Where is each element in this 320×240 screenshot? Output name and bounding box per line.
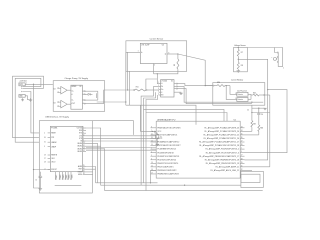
wire R11 node up to supply row: [146, 79, 157, 90]
U1 left pin 10: [151, 145, 157, 147]
U1 right pin 2: [240, 148, 244, 150]
charge pump boundary box: [53, 81, 104, 112]
wire U6 row1 down right side: [86, 128, 241, 185]
U2 pin 2 IN-: [159, 85, 161, 87]
op-amp U3B: [61, 100, 67, 108]
current window boundary box: [213, 83, 265, 106]
U6 pin 30 DTR: [48, 137, 51, 139]
U1 right pin 19: [240, 162, 244, 164]
U2 pin 5 EN: [159, 94, 161, 96]
svg-text:R18: R18: [260, 128, 263, 130]
wire mesh row to MCU region: [126, 105, 196, 125]
U1 right pin 24: [240, 130, 244, 132]
wire chain node to comparator bus: [251, 112, 252, 113]
U6 pin 13 CBUS2: [83, 148, 86, 150]
input resistor R11: [134, 90, 135, 91]
U6 bottom pins: [55, 172, 57, 179]
U1 left pin 15: [151, 166, 157, 168]
U6 pin 17 3V3OUT: [48, 169, 51, 171]
svg-text:PB7/XTAL2/TOSC2/PCINT7: PB7/XTAL2/TOSC2/PCINT7: [157, 144, 180, 147]
svg-text:OSCI: OSCI: [51, 158, 55, 160]
U1 right pin 25: [240, 134, 244, 136]
U6 pin 26 TEST: [83, 168, 86, 170]
wire U6 CBUS1 join vertical: [86, 145, 101, 147]
U6 pin 11 CTS: [83, 135, 86, 137]
svg-text:CBUS0: CBUS0: [77, 143, 82, 145]
wire to detector A input: [230, 86, 237, 95]
wire USB to MCU extra row A: [86, 147, 156, 149]
svg-text:RL_ATmega328P_PC4/ADC4/SDA/PCI: RL_ATmega328P_PC4/ADC4/SDA/PCINT12_27: [199, 141, 239, 144]
svg-text:GND5: GND5: [68, 174, 70, 178]
svg-text:RL_ATmega328P_PC1/ADC1/PCINT9_: RL_ATmega328P_PC1/ADC1/PCINT9_24: [204, 130, 239, 133]
svg-text:ATMEGA328P-PU: ATMEGA328P-PU: [157, 118, 175, 121]
wire U6 CBUS0 to bottom bus B1: [86, 144, 98, 183]
wire U6 RXD to MCU TXD: [86, 137, 156, 139]
U1 left pin 1: [151, 148, 157, 150]
wire R17 to MCU pin: [245, 130, 252, 132]
U2 pin 4 V-: [159, 91, 161, 93]
U6 pin 29 RESETB: [48, 154, 51, 156]
U1 left pin 7: [151, 130, 157, 132]
svg-text:10: 10: [247, 109, 249, 111]
svg-text:GND6: GND6: [71, 174, 73, 178]
svg-text:GND: GND: [20, 96, 23, 98]
wire output rail to R11: [104, 90, 135, 104]
U1 left pin 20: [151, 137, 157, 139]
svg-text:R9: R9: [174, 64, 176, 66]
wire U6 CBUS2 to bottom bus B3: [86, 149, 263, 191]
wire MCU left pin row to bus B1: [151, 170, 157, 182]
svg-text:RL_ATmega328P_PC3/ADC3/PCINT11: RL_ATmega328P_PC3/ADC3/PCINT11_26: [204, 137, 240, 140]
svg-text:R15: R15: [253, 92, 256, 94]
svg-text:C1+: C1+: [71, 91, 74, 93]
svg-text:GND4: GND4: [66, 174, 68, 178]
voltage sensor boundary box: [234, 48, 248, 72]
svg-text:CBUS1: CBUS1: [77, 146, 82, 148]
U1 right pin 21: [240, 166, 244, 168]
resistor R8 divider bottom: [237, 56, 239, 62]
svg-text:Current Window: Current Window: [231, 79, 244, 82]
U6 pin 25 AGND: [83, 166, 86, 168]
svg-text:USBDM: USBDM: [51, 142, 57, 144]
U1 left pin 12: [151, 141, 157, 143]
svg-text:LTC6101: LTC6101: [161, 80, 167, 82]
wire mesh corner row upper: [144, 109, 225, 121]
svg-text:RL_ATmega328P_PB4/MISO/PCINT4_: RL_ATmega328P_PB4/MISO/PCINT4_18: [205, 158, 239, 161]
RC chain R17: [251, 105, 253, 120]
svg-text:PD2/INT0/PCINT18: PD2/INT0/PCINT18: [157, 152, 173, 154]
crystal load cap cluster: [139, 105, 141, 131]
U1 left pin 4: [151, 152, 157, 154]
wire op-amp input row: [97, 101, 126, 103]
svg-text:RTS: RTS: [79, 133, 82, 135]
U6 pin 1 TXD: [83, 127, 86, 129]
battery return loop wire: [278, 48, 283, 67]
connector pin 1 wire to charge pump: [25, 83, 53, 85]
svg-text:+: +: [271, 57, 272, 59]
input pin pad: [213, 85, 214, 86]
svg-text:V+: V+: [71, 94, 73, 96]
U1 right pin 17: [240, 155, 244, 157]
svg-text:PD4/T0/XCK/PCINT20: PD4/T0/XCK/PCINT20: [157, 159, 176, 161]
amplifier U2 body: [161, 80, 174, 97]
diode D1: [85, 93, 88, 95]
svg-text:IN+: IN+: [161, 89, 163, 91]
svg-text:V+: V+: [161, 83, 163, 85]
wire junction down to system ground: [34, 84, 41, 188]
U6 pin 23 CBUS0: [83, 143, 86, 145]
U1 right pin 22: [240, 169, 244, 171]
U2 pin 1 V+: [159, 83, 161, 85]
svg-text:PD3/INT1/OC2B/PCINT19: PD3/INT1/OC2B/PCINT19: [157, 156, 179, 158]
svg-text:GND2: GND2: [60, 174, 62, 178]
svg-text:PD6/AIN0/OC0A/PCINT22: PD6/AIN0/OC0A/PCINT22: [157, 141, 179, 144]
charge pump IC U4: [71, 85, 83, 109]
flying capacitor C1 loop: [85, 90, 98, 92]
svg-text:Charge Pump, 5V Supply: Charge Pump, 5V Supply: [65, 77, 89, 80]
wire U3A output to U4: [67, 89, 71, 91]
connector ground block: [19, 95, 25, 98]
svg-text:LM2662: LM2662: [71, 86, 76, 88]
svg-text:RL_ATmega328P_ADC6_GND_22: RL_ATmega328P_ADC6_GND_22: [211, 169, 240, 172]
node after R16: [226, 85, 227, 86]
wire U3B output to U4: [67, 103, 71, 105]
U6 pin 6 RI: [83, 140, 86, 142]
U6 pin 3 RTS: [83, 132, 86, 134]
U1 left pin 16: [151, 169, 157, 171]
resistor R16: [217, 85, 225, 87]
U6 pin 5 RXD: [83, 130, 86, 132]
svg-text:CTS: CTS: [79, 135, 82, 137]
svg-text:RESETB: RESETB: [51, 155, 57, 157]
wire diagonal sensor output to current window: [178, 54, 213, 86]
svg-text:R11: R11: [136, 86, 139, 88]
svg-text:U3: U3: [54, 88, 56, 90]
svg-text:RL_ATmega328P_PC5/ADC5/SCL/PCI: RL_ATmega328P_PC5/ADC5/SCL/PCINT13_28: [199, 144, 239, 147]
wire node to far-right bus: [267, 89, 268, 90]
zero phase detector B: [237, 98, 248, 102]
detector output wires: [248, 93, 251, 95]
svg-text:RL_ATmega328P_AREF_21: RL_ATmega328P_AREF_21: [216, 165, 240, 168]
U1 left pin 17: [151, 173, 157, 175]
USB bridge IC U6: [50, 126, 82, 171]
U1 right pin 27: [240, 141, 244, 143]
resistor R18: [258, 115, 260, 125]
U6 pin 27 OSCI: [48, 158, 51, 160]
resistor R7 divider top: [238, 47, 239, 48]
divider tap node: [238, 59, 239, 60]
wire mesh corner row lower: [146, 113, 227, 122]
wire bottom-right loop inner: [241, 174, 260, 182]
pin 3 of U5: [167, 53, 178, 55]
U1 right pin 23: [240, 127, 244, 129]
wire U5 pin1 down long run: [126, 51, 141, 53]
resistor R15: [253, 94, 259, 96]
U1 left pin 11: [151, 134, 157, 136]
wire tap to ADC (down right side): [238, 59, 267, 160]
wire pin2 node to U2 supply: [153, 64, 155, 74]
svg-text:CBUS2: CBUS2: [77, 148, 82, 150]
svg-text:PD5/T1/OC0B/PCINT21: PD5/T1/OC0B/PCINT21: [157, 135, 177, 137]
svg-text:R8: R8: [241, 65, 243, 67]
svg-text:C4: C4: [36, 179, 38, 181]
svg-text:U3: U3: [54, 102, 56, 104]
current transducer U5 body: [140, 43, 167, 63]
svg-text:CBUS3: CBUS3: [77, 151, 82, 153]
U1 right pin 26: [240, 137, 244, 139]
svg-text:Y1: Y1: [160, 136, 162, 138]
svg-text:GND1: GND1: [56, 174, 58, 178]
wire 3V3OUT to battery junction rail: [33, 169, 34, 170]
svg-text:DC12: DC12: [20, 84, 24, 86]
svg-text:U5: U5: [162, 45, 164, 47]
svg-text:3V3OUT: 3V3OUT: [51, 169, 57, 171]
svg-text:U4: U4: [80, 86, 82, 88]
svg-text:FT232RL: FT232RL: [51, 127, 57, 129]
svg-text:R7: R7: [241, 52, 243, 54]
U2 ground: [174, 91, 181, 94]
U2 right pin 3 wire to chain rail: [174, 88, 177, 90]
svg-text:DTR: DTR: [79, 138, 82, 140]
wire U2 pin2 route down to bus B2: [141, 86, 153, 185]
svg-text:C6: C6: [261, 114, 263, 116]
U6 pin 2 DTR: [83, 137, 86, 139]
svg-text:R17: R17: [253, 123, 256, 125]
connector pin 4 wire to USB header pin: [23, 92, 40, 133]
U6 pin 9 USBDP: [48, 146, 51, 148]
svg-text:TEST: TEST: [78, 169, 82, 171]
op-amp U3A: [61, 87, 67, 95]
wire U2 pin4 route down to bus B1: [144, 92, 156, 183]
ground symbol for connector: [25, 96, 29, 100]
U6 pin 15 OSCI2: [83, 171, 86, 173]
capacitor C6: [258, 108, 259, 109]
svg-text:VOUT: VOUT: [71, 103, 75, 105]
svg-text:USBDP: USBDP: [51, 146, 56, 148]
U1 left pin 6: [151, 159, 157, 161]
wire comparator output down right: [269, 95, 271, 167]
wire box top extension to MCU net: [92, 121, 133, 135]
svg-text:USB Interface, 5V Supply: USB Interface, 5V Supply: [45, 116, 70, 119]
connector J1 body: [19, 83, 25, 86]
wire lower rows to bus: [86, 167, 96, 183]
svg-text:RL_ATmega328P_PC2/ADC2/PCINT10: RL_ATmega328P_PC2/ADC2/PCINT10_25: [203, 134, 239, 137]
wire to detector B input: [226, 86, 237, 100]
left ground wire of U6 with capacitor C4: [39, 172, 41, 176]
svg-text:PB2/SS/OC1B/PCINT2: PB2/SS/OC1B/PCINT2: [157, 170, 176, 172]
svg-text:RL_ATmega328P_PC0/ADC0/PCINT8_: RL_ATmega328P_PC0/ADC0/PCINT8_23: [204, 126, 239, 129]
svg-text:EN: EN: [161, 95, 163, 97]
U2 output wire to current window input: [174, 83, 177, 85]
svg-text:TXD: TXD: [79, 128, 82, 130]
U6 pin 16 GND4: [83, 174, 86, 176]
U6 pin 22 CBUS1: [83, 145, 86, 147]
ground stub inside window box: [252, 107, 264, 109]
svg-text:2: 2: [154, 65, 155, 67]
svg-text:VCC: VCC: [157, 131, 162, 133]
U1 left pin 14: [151, 162, 157, 164]
wire USB to MCU extra row B: [86, 149, 156, 151]
second ground mark: [22, 98, 24, 99]
burden resistor R9: [177, 53, 178, 54]
current sensor boundary box: [126, 41, 187, 72]
svg-text:DTR: DTR: [51, 137, 54, 139]
svg-text:PB0/ICP1/CLKO/PCINT0: PB0/ICP1/CLKO/PCINT0: [157, 163, 178, 165]
wire R9 bottom return: [157, 69, 178, 74]
svg-text:GND3: GND3: [63, 174, 65, 178]
wire U2 pin5 route down to bus B3: [146, 95, 158, 191]
svg-text:+12V Batt: +12V Batt: [19, 79, 27, 82]
svg-text:GND4: GND4: [78, 174, 82, 176]
U6 pin 28 OSCO: [48, 161, 51, 163]
wire battery+ to divider top: [247, 47, 282, 49]
svg-text:Voltage Sensor: Voltage Sensor: [234, 44, 246, 47]
svg-text:U2: U2: [171, 80, 173, 82]
ground below R8: [237, 69, 239, 70]
wire joining bottom pads: [55, 185, 82, 187]
svg-text:RXD: RXD: [79, 130, 82, 132]
MCU U1 body ATMEGA328: [156, 121, 240, 178]
wire second sense vertical: [127, 52, 129, 90]
svg-text:PB1/OC1A/PCINT1: PB1/OC1A/PCINT1: [157, 165, 173, 168]
U1 left pin 5: [151, 155, 157, 157]
U1 right pin 28: [240, 145, 244, 147]
bottom bus B1: [96, 182, 158, 184]
connector pin marks: [21, 86, 22, 87]
wire VOUT to output rail: [85, 103, 104, 105]
wire loop connector pin2 to USB header: [15, 78, 41, 142]
svg-text:PB6/XTAL1/TOSC1/PCINT6: PB6/XTAL1/TOSC1/PCINT6: [157, 126, 180, 129]
U1 right pin 18: [240, 159, 244, 161]
wire U6 TXD to MCU RXD: [86, 135, 156, 137]
U6 pin 4 RESET: [48, 132, 51, 134]
svg-text:RL_ATmega328P_PB5/SCK/PCINT5_1: RL_ATmega328P_PB5/SCK/PCINT5_19: [206, 162, 239, 165]
svg-text:RESET: RESET: [51, 133, 56, 135]
battery B1 symbol: [275, 48, 278, 53]
wire MCU right pin to loop outer: [245, 169, 253, 171]
svg-text:RL_ATmega328P_PD0/RXD/PCINT16_: RL_ATmega328P_PD0/RXD/PCINT16_2: [206, 148, 240, 151]
svg-text:R16: R16: [217, 82, 220, 84]
U6 pin 14 CBUS3: [83, 150, 86, 152]
wire third vertical from sensor boundary: [129, 71, 131, 105]
svg-text:LTS 15-NP: LTS 15-NP: [141, 45, 150, 47]
wire bottom-right loop outer: [241, 171, 263, 187]
U2 right pin 2 wire to comparator rail: [174, 85, 177, 87]
U1 right pin 3: [240, 152, 244, 154]
svg-text:Current Sensor: Current Sensor: [150, 37, 164, 40]
wire loop connector pin3 to USB header: [13, 76, 44, 137]
U1 left pin 9: [151, 127, 157, 129]
window output wire: [259, 94, 265, 96]
svg-text:RL_ATmega328P_PB3/MOSI/OC2A/PC: RL_ATmega328P_PB3/MOSI/OC2A/PCINT3_17: [199, 155, 239, 158]
U6 pin 31 USBDM: [48, 141, 51, 143]
svg-text:OSCI2: OSCI2: [78, 171, 83, 173]
svg-text:PC6/RESET/PCINT14: PC6/RESET/PCINT14: [157, 149, 175, 151]
svg-text:RL_ATmega328P_PD1/TXD/PCINT17_: RL_ATmega328P_PD1/TXD/PCINT17_3: [206, 151, 239, 154]
U2 pin 3 IN+: [159, 88, 161, 90]
wire U6 DTR to MCU reset: [86, 140, 156, 142]
wire R18 to MCU pin: [245, 134, 259, 136]
USB interface boundary box: [39, 121, 92, 193]
svg-text:PB3/MOSI/OC2A/PCINT3: PB3/MOSI/OC2A/PCINT3: [157, 173, 178, 176]
junction on pin1 wire: [33, 84, 34, 85]
